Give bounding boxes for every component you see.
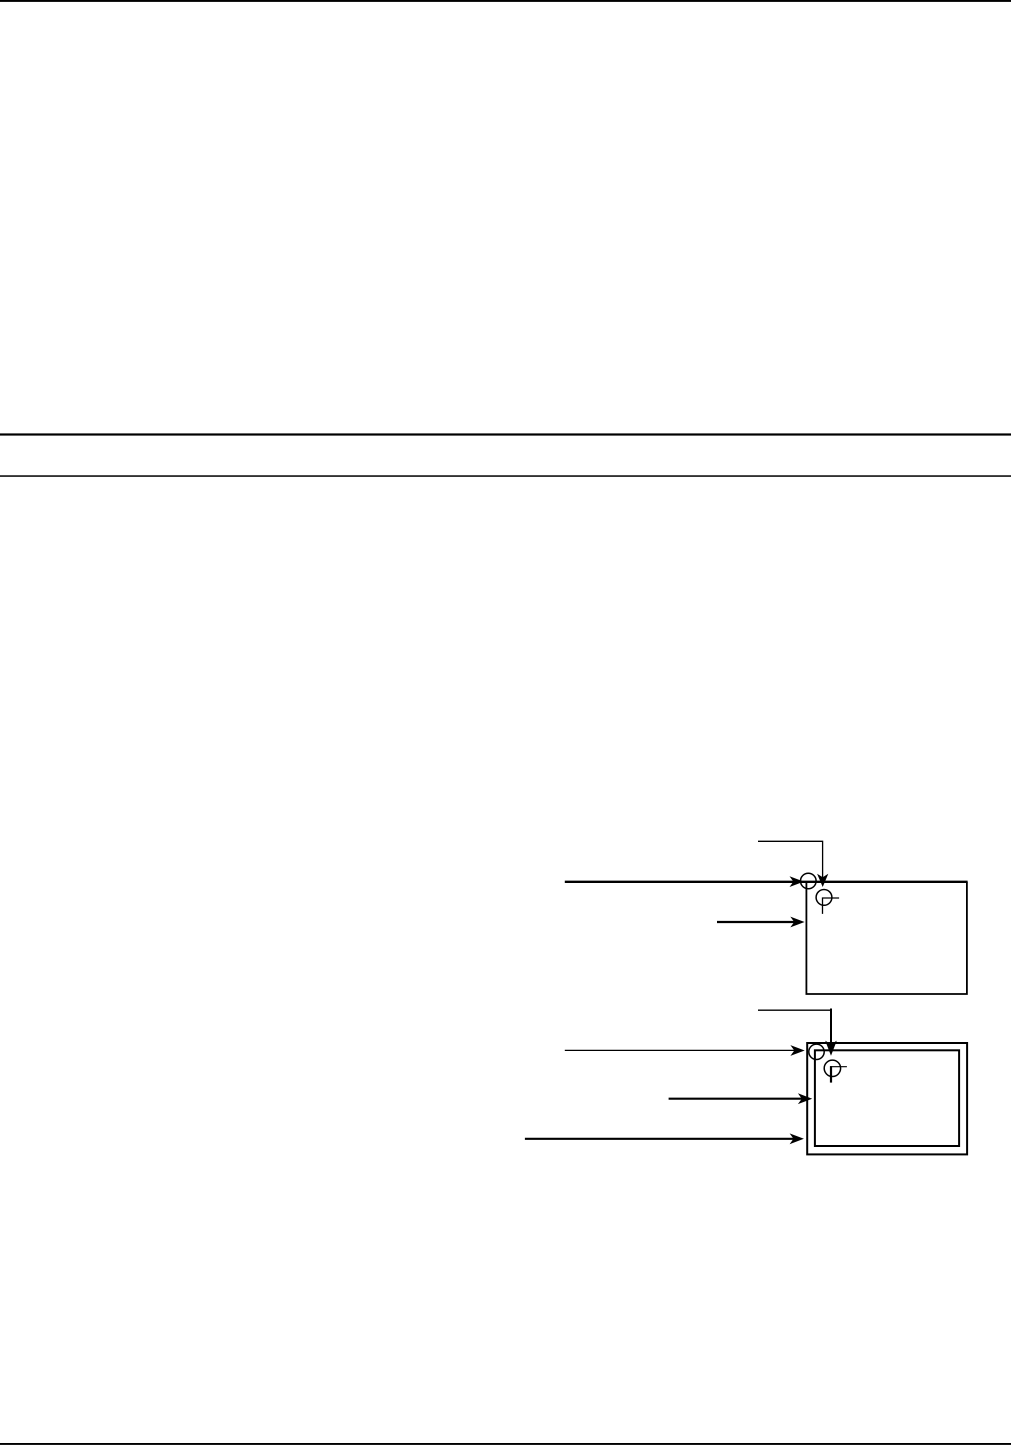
middle pointer arrow line (lower diagram)	[669, 1098, 804, 1100]
character-position corner cross vertical (lower diagram)	[830, 1066, 832, 1083]
character-position corner cross horizontal (lower diagram)	[830, 1066, 847, 1068]
long pointer line / screen top edge (upper diagram)	[565, 881, 968, 883]
header separator thin rule	[0, 475, 1011, 477]
callout bracket (upper diagram)	[758, 841, 823, 877]
callout bracket vertical thick segment (lower diagram)	[830, 1009, 832, 1046]
callout bracket (lower diagram)	[758, 1010, 831, 1044]
middle pointer arrowhead (lower diagram)	[798, 1093, 812, 1104]
header separator thick rule	[0, 433, 1011, 435]
screen rectangle (upper diagram)	[806, 882, 967, 994]
circle marker at window origin (lower diagram)	[809, 1044, 824, 1059]
bottom pointer arrow line (lower diagram)	[525, 1138, 795, 1140]
circle marker at first character position (upper diagram)	[816, 890, 832, 906]
second pointer arrow line (upper diagram)	[717, 921, 796, 923]
circle marker at screen origin (upper diagram)	[801, 873, 817, 889]
down arrowhead (lower diagram)	[825, 1041, 837, 1056]
second pointer arrowhead (upper diagram)	[790, 917, 804, 928]
footer rule	[0, 1443, 1011, 1445]
top pointer arrow line (lower diagram)	[565, 1049, 796, 1051]
circle marker at first character position (lower diagram)	[824, 1060, 840, 1076]
bottom pointer arrowhead (lower diagram)	[790, 1133, 804, 1144]
down arrowhead (upper diagram)	[817, 874, 828, 887]
character-position corner cross (upper diagram)	[823, 898, 840, 914]
right arrowhead on long pointer line (upper diagram)	[790, 876, 804, 887]
top header rule	[0, 0, 1011, 2]
outer window rectangle (lower diagram)	[807, 1043, 967, 1154]
top pointer arrowhead (lower diagram)	[790, 1045, 804, 1056]
inner window rectangle (lower diagram)	[815, 1050, 959, 1146]
